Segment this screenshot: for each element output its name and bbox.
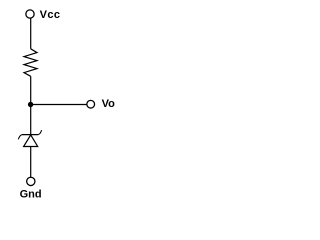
wire Vcc to resistor <box>30 18 32 49</box>
zener left wing <box>18 135 22 140</box>
zener cathode bar <box>22 134 38 136</box>
wire resistor to node <box>30 76 32 104</box>
terminal Gnd <box>27 177 35 185</box>
svg-text:Vo: Vo <box>102 98 116 110</box>
svg-text:Gnd: Gnd <box>20 188 42 200</box>
zener diode <box>18 130 41 146</box>
node junction <box>28 102 33 107</box>
zener right wing <box>38 130 41 135</box>
svg-text:Vcc: Vcc <box>40 9 61 21</box>
resistor <box>24 49 37 77</box>
wire node to zener <box>30 105 32 135</box>
wire zener to Gnd <box>30 147 32 178</box>
zener anode triangle <box>24 135 38 147</box>
wire node to Vo terminal <box>31 104 87 106</box>
terminal Vcc <box>26 10 34 18</box>
terminal Vo <box>87 100 95 108</box>
